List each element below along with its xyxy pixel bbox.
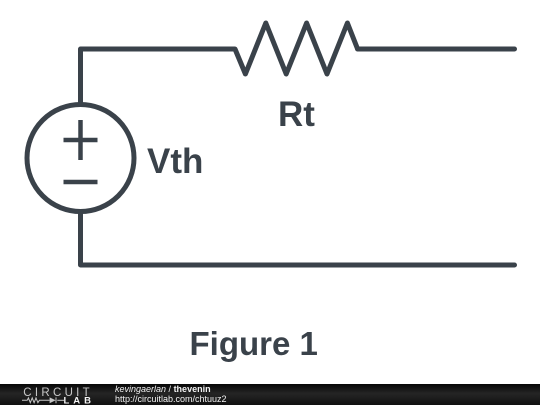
CircuitLab logo bbox=[0, 384, 100, 405]
footer credit text bbox=[114, 383, 116, 385]
logo resistor bbox=[22, 397, 64, 403]
footer bar bbox=[0, 384, 540, 405]
wire from resistor Rt right terminal to open terminal (node A) bbox=[358, 47, 515, 52]
logo diode bbox=[50, 397, 56, 403]
svg-text:LAB: LAB bbox=[64, 396, 94, 405]
svg-text:Vth: Vth bbox=[147, 142, 203, 181]
svg-text:Figure 1: Figure 1 bbox=[190, 325, 318, 362]
wire from V1 top terminal up and across to resistor Rt left terminal bbox=[81, 49, 236, 103]
svg-text:Rt: Rt bbox=[278, 95, 315, 134]
wire from V1 bottom terminal down and across to open terminal (node B) bbox=[81, 213, 515, 265]
resistor Rt bbox=[235, 23, 358, 74]
voltage source V1 (Vth) bbox=[27, 105, 134, 212]
